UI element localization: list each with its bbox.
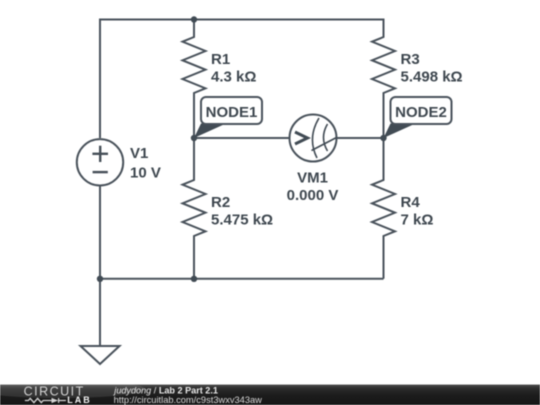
svg-text:NODE2: NODE2 (395, 104, 447, 121)
svg-text:5.475 kΩ: 5.475 kΩ (211, 212, 273, 229)
svg-text:4.3 kΩ: 4.3 kΩ (211, 69, 256, 86)
svg-text:V1: V1 (130, 145, 148, 162)
svg-text:7 kΩ: 7 kΩ (401, 212, 434, 229)
svg-text:VM1: VM1 (297, 170, 328, 187)
svg-text:http://circuitlab.com/c9st3wxv: http://circuitlab.com/c9st3wxv343aw (114, 395, 263, 405)
svg-text:5.498 kΩ: 5.498 kΩ (401, 69, 463, 86)
svg-text:NODE1: NODE1 (206, 104, 258, 121)
svg-text:10 V: 10 V (130, 165, 161, 182)
svg-text:judydong / Lab 2 Part 2.1: judydong / Lab 2 Part 2.1 (112, 386, 218, 396)
svg-text:0.000 V: 0.000 V (287, 187, 339, 204)
svg-text:LAB: LAB (67, 395, 92, 405)
svg-text:R2: R2 (211, 194, 230, 211)
svg-text:R1: R1 (211, 51, 230, 68)
svg-text:R4: R4 (401, 194, 421, 211)
svg-text:R3: R3 (401, 51, 420, 68)
